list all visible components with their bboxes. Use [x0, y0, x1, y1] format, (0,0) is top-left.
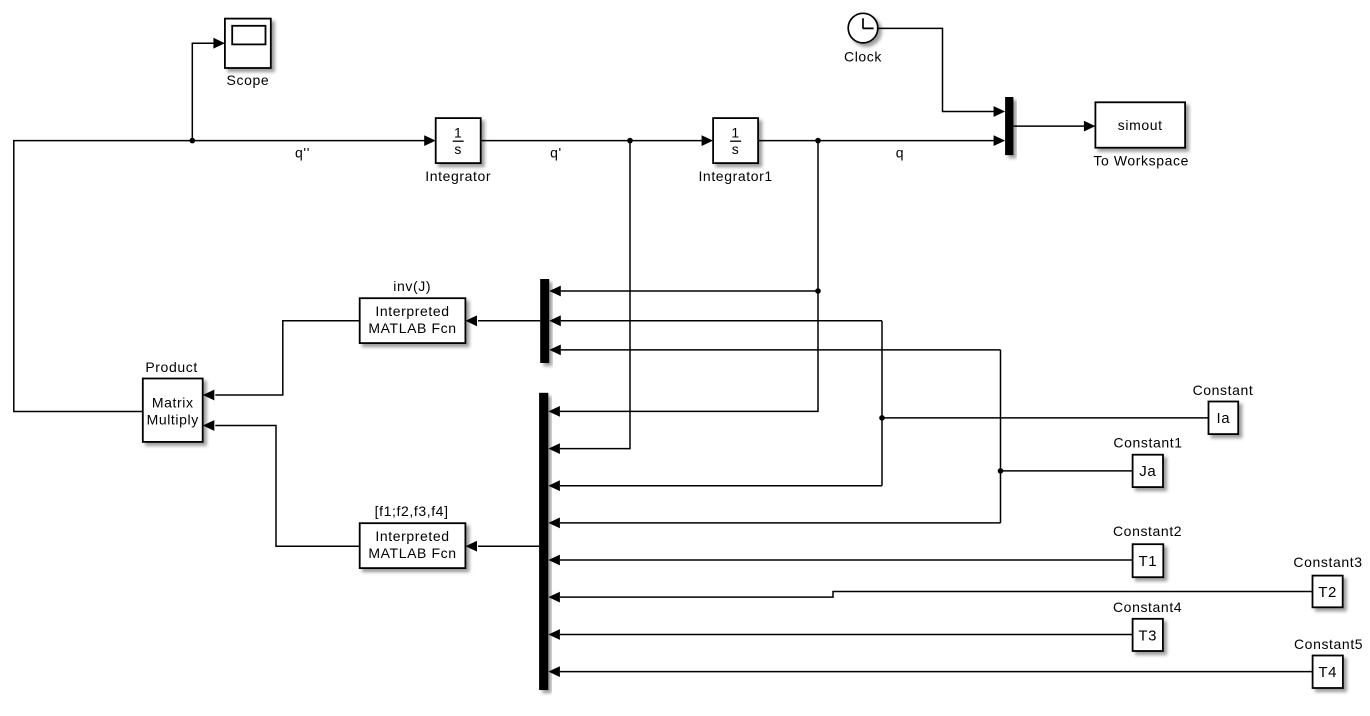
to-workspace block simout	[1093, 102, 1189, 168]
node Ia junction	[879, 415, 885, 421]
node q second junction	[815, 288, 821, 294]
wire q to mux1 port 1	[549, 286, 818, 297]
wire Clock to mux port 1	[879, 28, 1006, 117]
svg-text:inv(J): inv(J)	[393, 278, 431, 294]
integrator block Integrator	[425, 118, 491, 184]
svg-text:Constant2: Constant2	[1113, 523, 1182, 539]
wire mux1 to Interpreted MATLAB Fcn (inv(J))	[466, 315, 541, 326]
wire Ia to junction and branches (mux1 port 2, mux2 port 3)	[548, 315, 1208, 491]
wire feedback q'' (Product output to Integrator input)	[14, 135, 436, 411]
svg-text:Interpreted: Interpreted	[375, 528, 449, 544]
svg-text:1: 1	[731, 124, 739, 140]
svg-text:To Workspace: To Workspace	[1093, 153, 1189, 169]
svg-text:Matrix: Matrix	[152, 395, 194, 411]
svg-text:Clock: Clock	[844, 48, 882, 64]
svg-text:Multiply: Multiply	[147, 412, 199, 428]
wire q' (Integrator to Integrator1)	[481, 135, 713, 146]
wire q' branch to mux2 port 2	[548, 141, 630, 454]
function block U inv(J) Interpreted MATLAB Fcn	[360, 278, 466, 343]
svg-text:[f1;f2,f3,f4]: [f1;f2,f3,f4]	[375, 503, 449, 519]
constant block Constant3 (T2)	[1293, 554, 1362, 607]
svg-text:Ia: Ia	[1216, 410, 1230, 427]
wire mux to To Workspace	[1013, 121, 1095, 132]
svg-text:MATLAB Fcn: MATLAB Fcn	[368, 545, 456, 561]
integrator block Integrator1	[698, 118, 772, 184]
svg-text:1: 1	[454, 124, 462, 140]
node q'' branch junction	[190, 138, 196, 144]
constant block Constant1 (Ja)	[1113, 435, 1182, 488]
clock block Clock	[844, 13, 882, 64]
wire T1 to mux2 port 5	[548, 555, 1132, 566]
wire T2 to mux2 port 6 (with jog)	[548, 592, 1312, 603]
svg-text:s: s	[732, 141, 740, 157]
mux block (top, 2 inputs)	[1005, 97, 1013, 155]
svg-text:Constant3: Constant3	[1293, 554, 1362, 570]
svg-text:Constant4: Constant4	[1113, 599, 1182, 615]
function block U2 [f1;f2,f3,f4] Interpreted MATLAB Fcn	[360, 503, 466, 568]
node q branch junction	[815, 138, 821, 144]
svg-text:q: q	[896, 144, 904, 160]
svg-text:T3: T3	[1138, 627, 1157, 644]
svg-text:q': q'	[550, 144, 562, 160]
svg-text:T2: T2	[1318, 584, 1337, 601]
wire T4 to mux2 port 8	[548, 666, 1312, 677]
svg-text:Constant5: Constant5	[1294, 636, 1363, 652]
svg-text:Integrator1: Integrator1	[698, 168, 772, 184]
svg-text:Scope: Scope	[227, 72, 270, 88]
svg-text:T4: T4	[1318, 664, 1337, 681]
svg-text:Ja: Ja	[1139, 463, 1156, 480]
svg-text:MATLAB Fcn: MATLAB Fcn	[368, 320, 456, 336]
svg-text:s: s	[454, 141, 462, 157]
svg-text:simout: simout	[1118, 117, 1163, 133]
wire q branch down	[817, 141, 819, 291]
wire inv(J) output to Product port 1	[203, 321, 360, 401]
svg-text:Interpreted: Interpreted	[375, 303, 449, 319]
wire mux2 to [f1;f2,f3,f4] block	[466, 541, 540, 552]
scope block Scope	[225, 19, 271, 88]
wire T3 to mux2 port 7	[548, 629, 1132, 640]
svg-text:Product: Product	[145, 359, 197, 375]
constant block Constant2 (T1)	[1113, 523, 1182, 577]
mux block mux2 (8 inputs, flipped)	[539, 393, 548, 690]
wire q to mux2 port 1	[548, 291, 818, 417]
svg-text:Integrator: Integrator	[425, 168, 491, 184]
mux block mux1 (3 inputs, flipped)	[540, 279, 549, 363]
node Ja junction	[998, 468, 1004, 474]
product block Product (Matrix Multiply)	[143, 359, 203, 442]
wire Ja to junction and branches (mux1 port 3, mux2 port 4)	[548, 345, 1132, 529]
wire branch to Scope	[192, 38, 225, 141]
node q' branch junction	[627, 138, 633, 144]
svg-text:Constant1: Constant1	[1113, 435, 1182, 451]
constant block Constant4 (T3)	[1113, 599, 1182, 651]
svg-text:Constant: Constant	[1193, 382, 1254, 398]
wire [f1;f2,f3,f4] output to Product port 2	[203, 420, 360, 546]
svg-text:T1: T1	[1139, 553, 1158, 570]
svg-text:q'': q''	[295, 144, 310, 160]
wire q (Integrator1 to mux)	[758, 135, 1005, 146]
constant block Constant5 (T4)	[1294, 636, 1363, 688]
constant block Constant (Ia)	[1193, 382, 1254, 434]
